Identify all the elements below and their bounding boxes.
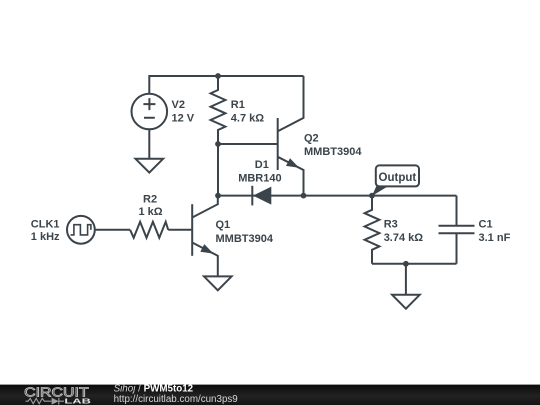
svg-text:1 kΩ: 1 kΩ	[139, 206, 163, 218]
svg-text:CLK1: CLK1	[31, 218, 60, 230]
svg-text:LAB: LAB	[64, 396, 91, 405]
svg-text:MMBT3904: MMBT3904	[304, 146, 362, 158]
svg-text:Q1: Q1	[216, 219, 231, 231]
svg-text:V2: V2	[172, 99, 185, 111]
svg-text:R2: R2	[143, 194, 157, 206]
svg-text:C1: C1	[479, 218, 493, 230]
svg-text:http://circuitlab.com/cun3ps9: http://circuitlab.com/cun3ps9	[114, 394, 238, 405]
svg-text:Output: Output	[379, 172, 417, 184]
svg-text:3.74 kΩ: 3.74 kΩ	[384, 232, 424, 244]
svg-text:4.7 kΩ: 4.7 kΩ	[231, 113, 264, 125]
svg-text:R3: R3	[384, 218, 398, 230]
svg-text:MMBT3904: MMBT3904	[216, 233, 274, 245]
svg-text:MBR140: MBR140	[238, 173, 281, 185]
svg-text:Q2: Q2	[304, 132, 319, 144]
svg-text:R1: R1	[231, 99, 245, 111]
svg-text:3.1 nF: 3.1 nF	[479, 232, 511, 244]
svg-text:Sihoj / PWM5to12: Sihoj / PWM5to12	[114, 384, 194, 395]
svg-text:D1: D1	[255, 159, 269, 171]
svg-text:12 V: 12 V	[172, 113, 195, 125]
svg-text:1 kHz: 1 kHz	[31, 231, 60, 243]
